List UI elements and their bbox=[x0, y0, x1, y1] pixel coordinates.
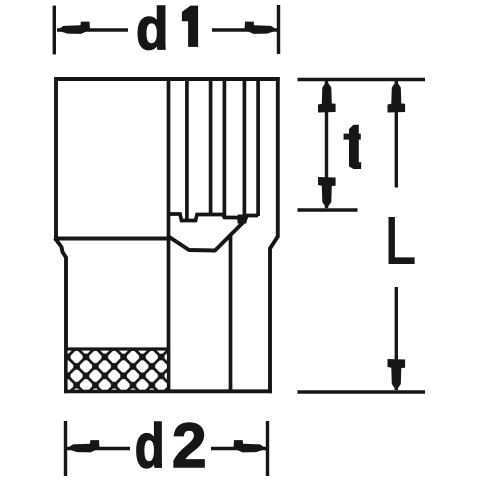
svg-text:2: 2 bbox=[172, 410, 207, 480]
svg-text:d: d bbox=[136, 0, 168, 62]
svg-text:d: d bbox=[135, 410, 165, 480]
